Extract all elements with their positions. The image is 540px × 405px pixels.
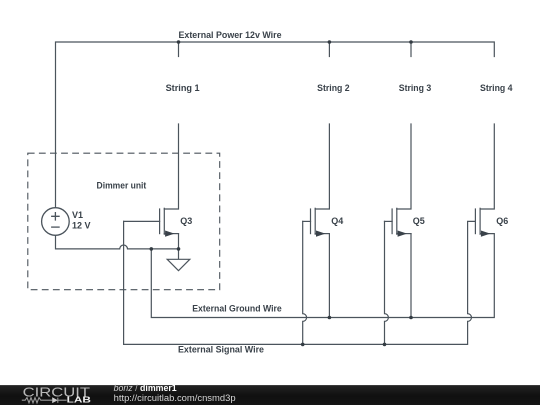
svg-text:http://circuitlab.com/cnsmd3p: http://circuitlab.com/cnsmd3p [114,393,236,403]
svg-text:boriz / dimmer1: boriz / dimmer1 [114,383,177,393]
svg-text:Q3: Q3 [180,216,192,226]
svg-text:12 V: 12 V [72,221,91,231]
svg-text:Q6: Q6 [496,216,508,226]
svg-text:String 4: String 4 [480,83,513,93]
svg-text:String 2: String 2 [317,83,350,93]
svg-text:V1: V1 [72,210,83,220]
svg-text:Q4: Q4 [331,216,343,226]
svg-text:LAB: LAB [67,396,91,405]
svg-text:Q5: Q5 [413,216,425,226]
svg-text:External Power 12v Wire: External Power 12v Wire [179,30,282,40]
svg-text:Dimmer unit: Dimmer unit [97,181,147,191]
svg-text:String 3: String 3 [399,83,432,93]
svg-text:External Ground Wire: External Ground Wire [192,303,282,313]
svg-text:String 1: String 1 [166,83,200,93]
svg-text:External Signal Wire: External Signal Wire [178,345,264,355]
